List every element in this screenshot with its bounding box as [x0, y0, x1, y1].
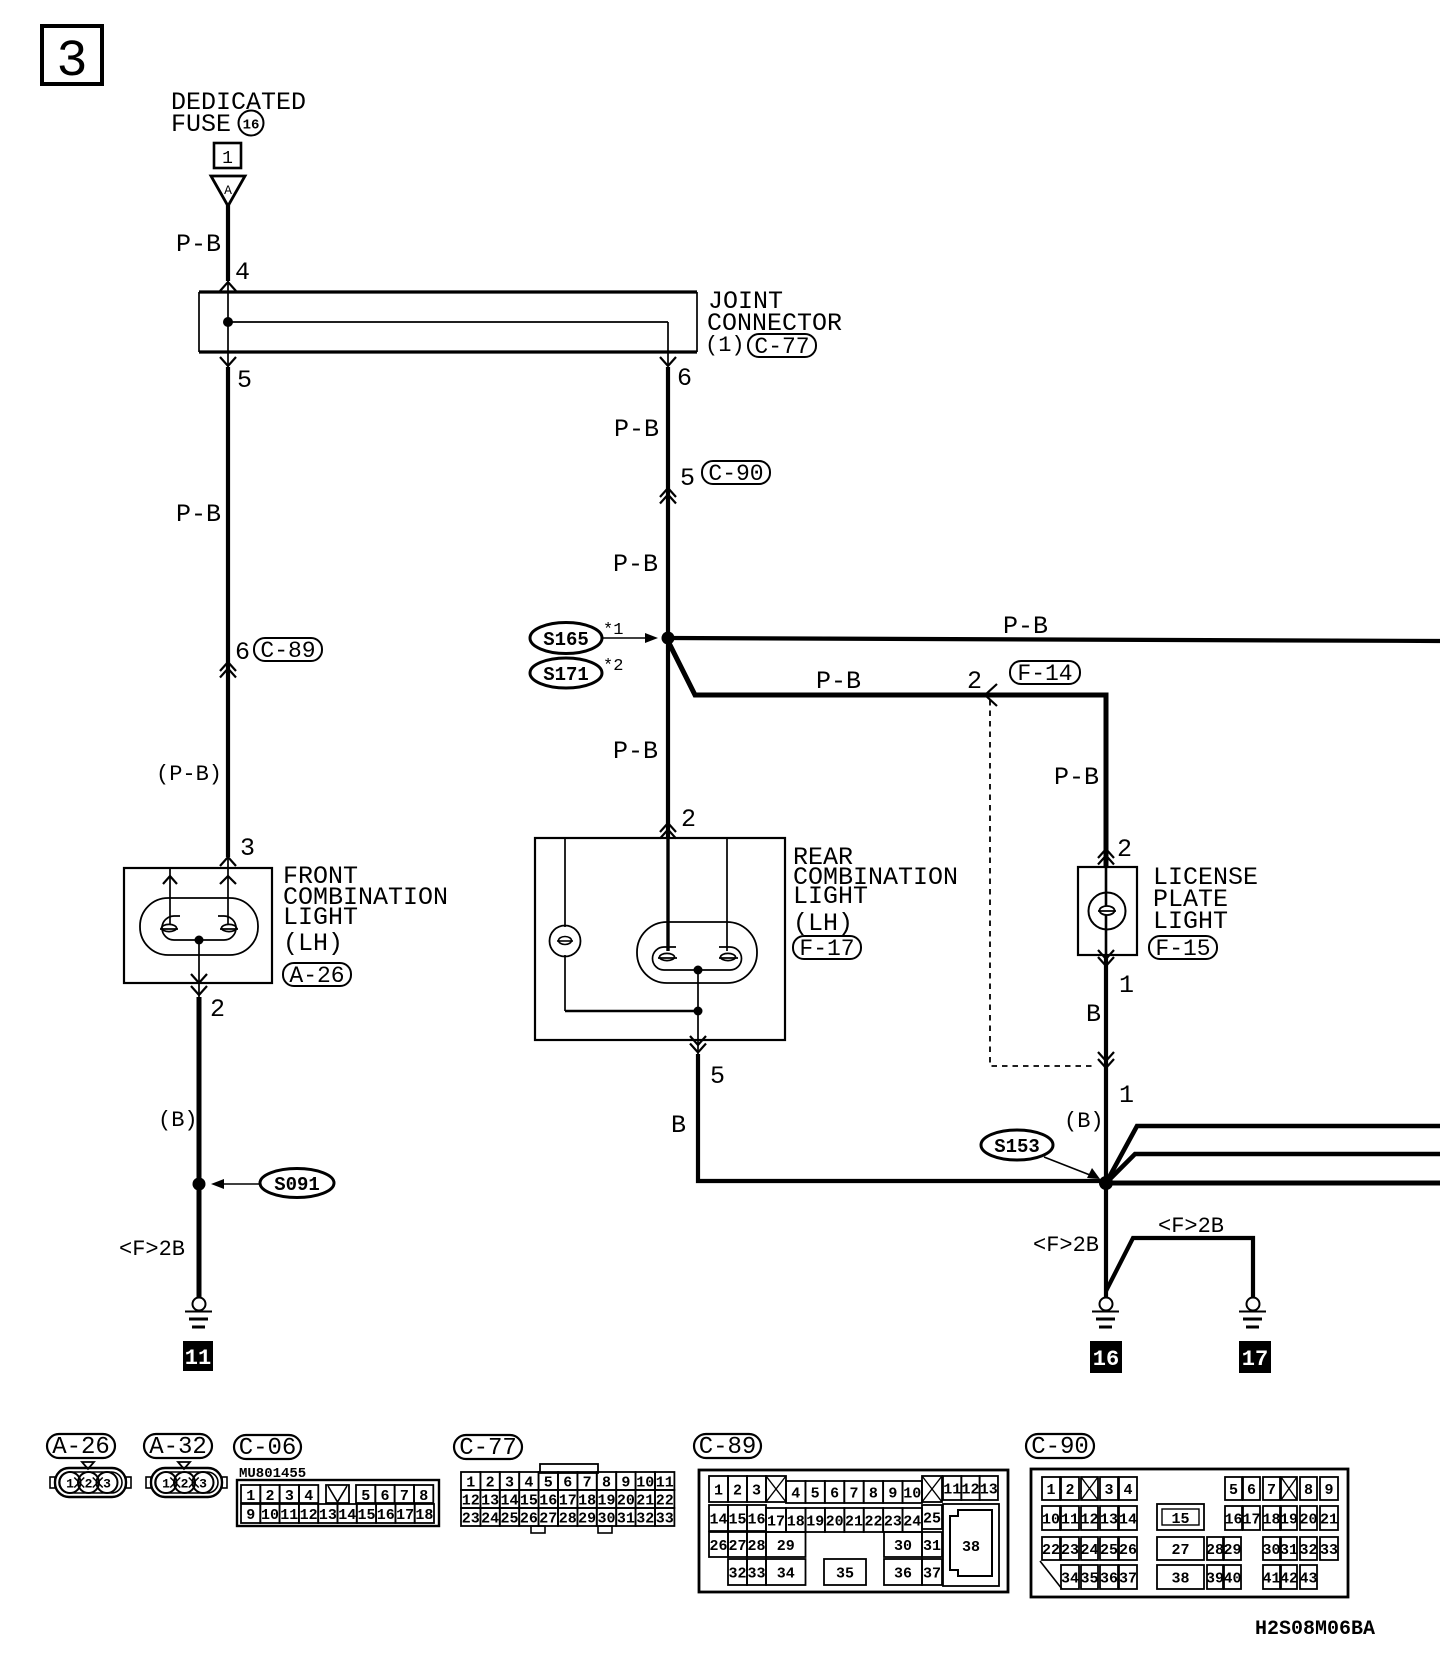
- svg-text:19: 19: [1280, 1512, 1298, 1529]
- svg-text:37: 37: [1119, 1571, 1137, 1588]
- svg-text:35: 35: [836, 1566, 854, 1583]
- svg-text:1: 1: [162, 1477, 170, 1492]
- rear combination light box: [535, 838, 785, 1040]
- svg-text:1: 1: [246, 1488, 255, 1505]
- connector tag C-77: [748, 334, 816, 360]
- ground tag 11: [183, 1341, 213, 1371]
- svg-text:5: 5: [237, 366, 252, 395]
- svg-text:11: 11: [185, 1346, 211, 1371]
- connector body C-90: [1031, 1469, 1348, 1597]
- svg-text:12: 12: [462, 1493, 480, 1510]
- connector label C-77: [454, 1435, 522, 1462]
- wire branch to ground 17: [1106, 1238, 1253, 1297]
- svg-text:21: 21: [1320, 1512, 1338, 1529]
- svg-text:33: 33: [1320, 1542, 1338, 1559]
- svg-text:3: 3: [240, 834, 255, 863]
- svg-text:10: 10: [1042, 1512, 1060, 1529]
- svg-text:41: 41: [1262, 1571, 1280, 1588]
- svg-text:S165: S165: [543, 629, 589, 651]
- chevron up pin 3: [220, 857, 236, 866]
- svg-text:16: 16: [747, 1512, 765, 1529]
- svg-text:43: 43: [1299, 1571, 1317, 1588]
- splice S165: [530, 623, 602, 654]
- svg-text:37: 37: [923, 1566, 941, 1583]
- svg-text:C-90: C-90: [1031, 1434, 1089, 1461]
- svg-text:18: 18: [1262, 1512, 1280, 1529]
- svg-text:7: 7: [849, 1486, 858, 1503]
- svg-text:<F>2B: <F>2B: [1033, 1233, 1099, 1258]
- svg-text:11: 11: [1061, 1512, 1079, 1529]
- svg-text:P-B: P-B: [816, 667, 861, 696]
- svg-text:12: 12: [300, 1507, 318, 1524]
- svg-text:LIGHT: LIGHT: [1153, 907, 1228, 936]
- splice S153: [981, 1130, 1100, 1179]
- svg-text:16: 16: [243, 118, 260, 134]
- svg-text:4: 4: [524, 1475, 533, 1492]
- svg-text:29: 29: [777, 1538, 795, 1555]
- svg-text:39: 39: [1206, 1571, 1224, 1588]
- dashed option wire: [990, 700, 1094, 1066]
- svg-text:42: 42: [1280, 1571, 1298, 1588]
- svg-text:1: 1: [1119, 971, 1134, 1000]
- svg-text:H2S08M06BA: H2S08M06BA: [1255, 1618, 1375, 1641]
- svg-text:9: 9: [1324, 1482, 1333, 1499]
- svg-text:1: 1: [66, 1477, 74, 1492]
- svg-text:19: 19: [806, 1514, 824, 1531]
- svg-text:<F>2B: <F>2B: [1158, 1214, 1224, 1239]
- svg-text:31: 31: [923, 1538, 941, 1555]
- ground 11: [185, 1298, 212, 1328]
- svg-text:35: 35: [1080, 1571, 1098, 1588]
- connector label C-06: [234, 1435, 301, 1462]
- svg-text:24: 24: [903, 1514, 921, 1531]
- svg-text:17: 17: [559, 1493, 577, 1510]
- label LICENSE PLATE LIGHT: [1153, 863, 1258, 936]
- svg-text:3: 3: [505, 1475, 514, 1492]
- svg-text:4: 4: [791, 1486, 800, 1503]
- svg-text:F-15: F-15: [1155, 936, 1210, 962]
- svg-text:16: 16: [377, 1507, 395, 1524]
- svg-text:B: B: [1086, 1000, 1101, 1029]
- svg-text:8: 8: [602, 1475, 611, 1492]
- arrow S165 to junction: [603, 633, 658, 643]
- svg-text:17: 17: [1242, 1347, 1268, 1372]
- svg-text:2: 2: [1117, 835, 1132, 864]
- wire joint connector to S165 junction: [666, 367, 670, 646]
- svg-text:29: 29: [578, 1511, 596, 1528]
- svg-text:25: 25: [500, 1511, 518, 1528]
- svg-text:5: 5: [544, 1475, 553, 1492]
- svg-text:3: 3: [56, 32, 87, 91]
- svg-text:4: 4: [235, 258, 250, 287]
- svg-text:22: 22: [1042, 1542, 1060, 1559]
- svg-text:13: 13: [319, 1507, 337, 1524]
- svg-text:3: 3: [1104, 1482, 1113, 1499]
- svg-text:33: 33: [656, 1511, 674, 1528]
- svg-text:12: 12: [1080, 1512, 1098, 1529]
- svg-text:21: 21: [636, 1493, 654, 1510]
- svg-text:34: 34: [1061, 1571, 1079, 1588]
- svg-text:3: 3: [199, 1477, 207, 1492]
- svg-text:17: 17: [396, 1507, 414, 1524]
- svg-text:2: 2: [967, 667, 982, 696]
- chevron down pin 6: [660, 357, 676, 366]
- svg-text:28: 28: [559, 1511, 577, 1528]
- svg-text:12: 12: [961, 1482, 979, 1499]
- svg-text:P-B: P-B: [176, 230, 221, 259]
- splice S171: [530, 658, 602, 688]
- svg-text:17: 17: [1242, 1512, 1260, 1529]
- license plate light box: [1078, 867, 1137, 955]
- pin 6 / connector C-89: [235, 638, 322, 667]
- wire S153 fan top: [1106, 1126, 1440, 1183]
- svg-text:13: 13: [980, 1482, 998, 1499]
- svg-text:2: 2: [265, 1488, 274, 1505]
- ground tag 16: [1090, 1341, 1122, 1373]
- svg-text:1: 1: [714, 1483, 723, 1500]
- connector label C-90: [1026, 1434, 1094, 1461]
- svg-text:5: 5: [680, 464, 695, 493]
- svg-text:8: 8: [869, 1486, 878, 1503]
- svg-text:16: 16: [1224, 1512, 1242, 1529]
- svg-text:S091: S091: [274, 1174, 320, 1196]
- svg-text:25: 25: [923, 1511, 941, 1528]
- wire junction to license plate light: [668, 641, 1106, 867]
- svg-text:8: 8: [419, 1488, 428, 1505]
- wire front light to ground: [197, 997, 202, 1298]
- svg-text:26: 26: [1119, 1542, 1137, 1559]
- svg-text:16: 16: [539, 1493, 557, 1510]
- svg-text:5: 5: [710, 1062, 725, 1091]
- label REAR COMBINATION LIGHT (LH): [793, 843, 958, 938]
- svg-text:14: 14: [709, 1512, 727, 1529]
- svg-text:30: 30: [1262, 1542, 1280, 1559]
- svg-text:27: 27: [728, 1538, 746, 1555]
- svg-text:(LH): (LH): [793, 909, 853, 938]
- svg-text:10: 10: [903, 1486, 921, 1503]
- svg-text:6: 6: [380, 1488, 389, 1505]
- svg-text:15: 15: [520, 1493, 538, 1510]
- pin 5 / connector C-90: [680, 461, 770, 493]
- svg-text:(LH): (LH): [283, 929, 343, 958]
- svg-text:A-32: A-32: [149, 1434, 207, 1461]
- svg-text:P-B: P-B: [176, 500, 221, 529]
- ground tag 17: [1239, 1341, 1271, 1373]
- svg-text:15: 15: [1171, 1511, 1189, 1528]
- svg-text:14: 14: [338, 1507, 356, 1524]
- svg-text:P-B: P-B: [1054, 763, 1099, 792]
- svg-text:18: 18: [415, 1507, 433, 1524]
- svg-text:A-26: A-26: [52, 1434, 110, 1461]
- svg-text:A: A: [224, 183, 232, 198]
- splice S091: [211, 1169, 334, 1198]
- svg-text:5: 5: [811, 1486, 820, 1503]
- double chevron up rear: [660, 823, 676, 839]
- svg-text:30: 30: [597, 1511, 615, 1528]
- svg-text:15: 15: [728, 1512, 746, 1529]
- svg-text:C-77: C-77: [459, 1435, 517, 1462]
- svg-text:C-77: C-77: [754, 334, 809, 360]
- svg-text:22: 22: [864, 1514, 882, 1531]
- svg-text:27: 27: [1171, 1542, 1189, 1559]
- svg-text:11: 11: [943, 1482, 961, 1499]
- wire rear combination light branch: [666, 646, 670, 838]
- label JOINT CONNECTOR (1): [705, 287, 842, 358]
- svg-text:*1: *1: [603, 621, 623, 640]
- chevron down pin 5: [220, 357, 236, 366]
- svg-text:3: 3: [752, 1483, 761, 1500]
- svg-text:A-26: A-26: [289, 963, 344, 989]
- wire S153 to ground 16: [1104, 1183, 1108, 1298]
- svg-text:14: 14: [1119, 1512, 1137, 1529]
- svg-text:3: 3: [103, 1477, 111, 1492]
- svg-text:17: 17: [767, 1514, 785, 1531]
- svg-text:(B): (B): [158, 1108, 198, 1133]
- svg-text:2: 2: [1065, 1482, 1074, 1499]
- svg-text:P-B: P-B: [1003, 612, 1048, 641]
- svg-text:26: 26: [520, 1511, 538, 1528]
- svg-text:9: 9: [621, 1475, 630, 1492]
- svg-text:1: 1: [222, 149, 233, 169]
- svg-text:*2: *2: [603, 657, 623, 676]
- connector body C-89: [699, 1470, 1008, 1592]
- double chevron up C-90: [660, 488, 676, 504]
- page number box 3: [42, 26, 102, 91]
- svg-text:15: 15: [357, 1507, 375, 1524]
- svg-text:20: 20: [1299, 1512, 1317, 1529]
- svg-text:(P-B): (P-B): [156, 762, 222, 787]
- svg-text:13: 13: [1100, 1512, 1118, 1529]
- connector tag A-26: [283, 963, 351, 989]
- wire S153 fan middle: [1106, 1154, 1440, 1183]
- connector tag F-17: [793, 936, 861, 962]
- svg-text:16: 16: [1093, 1347, 1119, 1372]
- svg-text:F-14: F-14: [1017, 661, 1072, 687]
- svg-text:F-17: F-17: [799, 936, 854, 962]
- svg-text:S153: S153: [994, 1136, 1040, 1158]
- svg-text:14: 14: [500, 1493, 518, 1510]
- wire rear light B to S153: [697, 1040, 699, 1054]
- svg-text:23: 23: [462, 1511, 480, 1528]
- svg-text:34: 34: [777, 1566, 795, 1583]
- label FRONT COMBINATION LIGHT (LH): [283, 862, 448, 958]
- double chevron down rear pin 5: [690, 1036, 706, 1053]
- ground 17: [1239, 1298, 1266, 1328]
- svg-text:C-89: C-89: [699, 1434, 757, 1461]
- wire fuse to joint connector: [226, 204, 230, 281]
- svg-text:36: 36: [1100, 1571, 1118, 1588]
- svg-text:7: 7: [400, 1488, 409, 1505]
- wire junction to right edge P-B: [668, 638, 1440, 641]
- connector label A-32: [144, 1434, 212, 1461]
- svg-text:32: 32: [728, 1566, 746, 1583]
- junction node S091: [193, 1178, 206, 1191]
- svg-text:26: 26: [709, 1538, 727, 1555]
- svg-text:P-B: P-B: [613, 737, 658, 766]
- svg-text:30: 30: [894, 1538, 912, 1555]
- svg-text:1: 1: [1046, 1482, 1055, 1499]
- svg-text:C-89: C-89: [260, 638, 315, 664]
- connector tag F-14: [1010, 661, 1080, 687]
- svg-text:2: 2: [681, 805, 696, 834]
- svg-text:7: 7: [1267, 1482, 1276, 1499]
- svg-text:P-B: P-B: [614, 415, 659, 444]
- svg-text:24: 24: [1080, 1542, 1098, 1559]
- svg-text:28: 28: [747, 1538, 765, 1555]
- svg-text:LIGHT: LIGHT: [793, 882, 868, 911]
- svg-text:9: 9: [246, 1507, 255, 1524]
- svg-text:FUSE: FUSE: [171, 110, 231, 139]
- svg-text:20: 20: [826, 1514, 844, 1531]
- svg-text:32: 32: [636, 1511, 654, 1528]
- svg-text:23: 23: [1061, 1542, 1079, 1559]
- svg-text:19: 19: [597, 1493, 615, 1510]
- joint connector box: [199, 292, 697, 366]
- svg-text:10: 10: [636, 1475, 654, 1492]
- svg-text:7: 7: [583, 1475, 592, 1492]
- wire license to S153: [1104, 955, 1108, 1183]
- svg-text:24: 24: [481, 1511, 499, 1528]
- svg-text:3: 3: [285, 1488, 294, 1505]
- svg-text:2: 2: [181, 1477, 189, 1492]
- svg-text:18: 18: [578, 1493, 596, 1510]
- double chevron down front light pin 2: [191, 974, 207, 995]
- svg-text:13: 13: [481, 1493, 499, 1510]
- chevron left F-14: [985, 684, 997, 706]
- svg-text:2: 2: [210, 995, 225, 1024]
- svg-text:C-06: C-06: [239, 1435, 297, 1462]
- svg-text:11: 11: [280, 1507, 298, 1524]
- connector body C-77: [461, 1464, 674, 1533]
- connector label C-89: [694, 1434, 761, 1461]
- svg-text:1: 1: [1119, 1081, 1134, 1110]
- svg-text:36: 36: [894, 1566, 912, 1583]
- svg-text:31: 31: [617, 1511, 635, 1528]
- connector label A-26: [47, 1434, 115, 1461]
- svg-text:2: 2: [85, 1477, 93, 1492]
- connector body A-26 3-pin: [50, 1462, 131, 1497]
- svg-text:5: 5: [361, 1488, 370, 1505]
- svg-text:LIGHT: LIGHT: [283, 903, 358, 932]
- svg-text:6: 6: [830, 1486, 839, 1503]
- svg-text:40: 40: [1223, 1571, 1241, 1588]
- svg-text:33: 33: [747, 1566, 765, 1583]
- wire S153 to right edge bottom: [1106, 1181, 1440, 1186]
- svg-text:2: 2: [486, 1475, 495, 1492]
- svg-text:38: 38: [1171, 1571, 1189, 1588]
- svg-text:6: 6: [1247, 1482, 1256, 1499]
- svg-text:8: 8: [1304, 1482, 1313, 1499]
- svg-text:9: 9: [888, 1486, 897, 1503]
- svg-text:11: 11: [656, 1475, 674, 1492]
- svg-text:4: 4: [304, 1488, 313, 1505]
- svg-text:18: 18: [787, 1514, 805, 1531]
- svg-text:20: 20: [617, 1493, 635, 1510]
- svg-text:28: 28: [1206, 1542, 1224, 1559]
- double chevron down license pin 1: [1098, 950, 1114, 966]
- connector body C-06: [237, 1480, 439, 1526]
- double chevron down at dashed join: [1098, 1052, 1114, 1068]
- double chevron up C-89: [220, 662, 236, 678]
- junction node S165: [662, 632, 675, 645]
- svg-text:10: 10: [261, 1507, 279, 1524]
- svg-text:4: 4: [1123, 1482, 1132, 1499]
- svg-text:P-B: P-B: [613, 550, 658, 579]
- svg-text:<F>2B: <F>2B: [119, 1237, 185, 1262]
- svg-text:(1): (1): [705, 333, 745, 358]
- svg-text:27: 27: [539, 1511, 557, 1528]
- svg-text:32: 32: [1299, 1542, 1317, 1559]
- svg-text:25: 25: [1100, 1542, 1118, 1559]
- svg-text:B: B: [671, 1111, 686, 1140]
- wire joint connector to front combination light: [226, 367, 230, 857]
- front combination light box: [124, 868, 272, 983]
- power triangle A: [211, 176, 245, 206]
- svg-text:6: 6: [235, 638, 250, 667]
- chevron up pin 4: [220, 282, 236, 291]
- label DEDICATED FUSE 16: [171, 88, 306, 139]
- svg-text:5: 5: [1229, 1482, 1238, 1499]
- svg-text:(B): (B): [1064, 1109, 1104, 1134]
- svg-text:1: 1: [466, 1475, 475, 1492]
- svg-text:2: 2: [733, 1483, 742, 1500]
- fuse terminal box 1: [214, 143, 241, 169]
- svg-text:6: 6: [563, 1475, 572, 1492]
- svg-text:S171: S171: [543, 664, 589, 686]
- double chevron up license: [1098, 849, 1114, 865]
- svg-text:38: 38: [962, 1539, 980, 1556]
- svg-text:23: 23: [884, 1514, 902, 1531]
- svg-text:22: 22: [656, 1493, 674, 1510]
- junction node S153: [1099, 1176, 1113, 1190]
- svg-text:31: 31: [1280, 1542, 1298, 1559]
- connector tag F-15: [1149, 936, 1217, 962]
- connector body A-32 3-pin: [146, 1462, 227, 1497]
- svg-text:29: 29: [1223, 1542, 1241, 1559]
- ground 16: [1092, 1298, 1119, 1328]
- svg-text:6: 6: [677, 364, 692, 393]
- svg-text:C-90: C-90: [708, 461, 763, 487]
- svg-text:21: 21: [845, 1514, 863, 1531]
